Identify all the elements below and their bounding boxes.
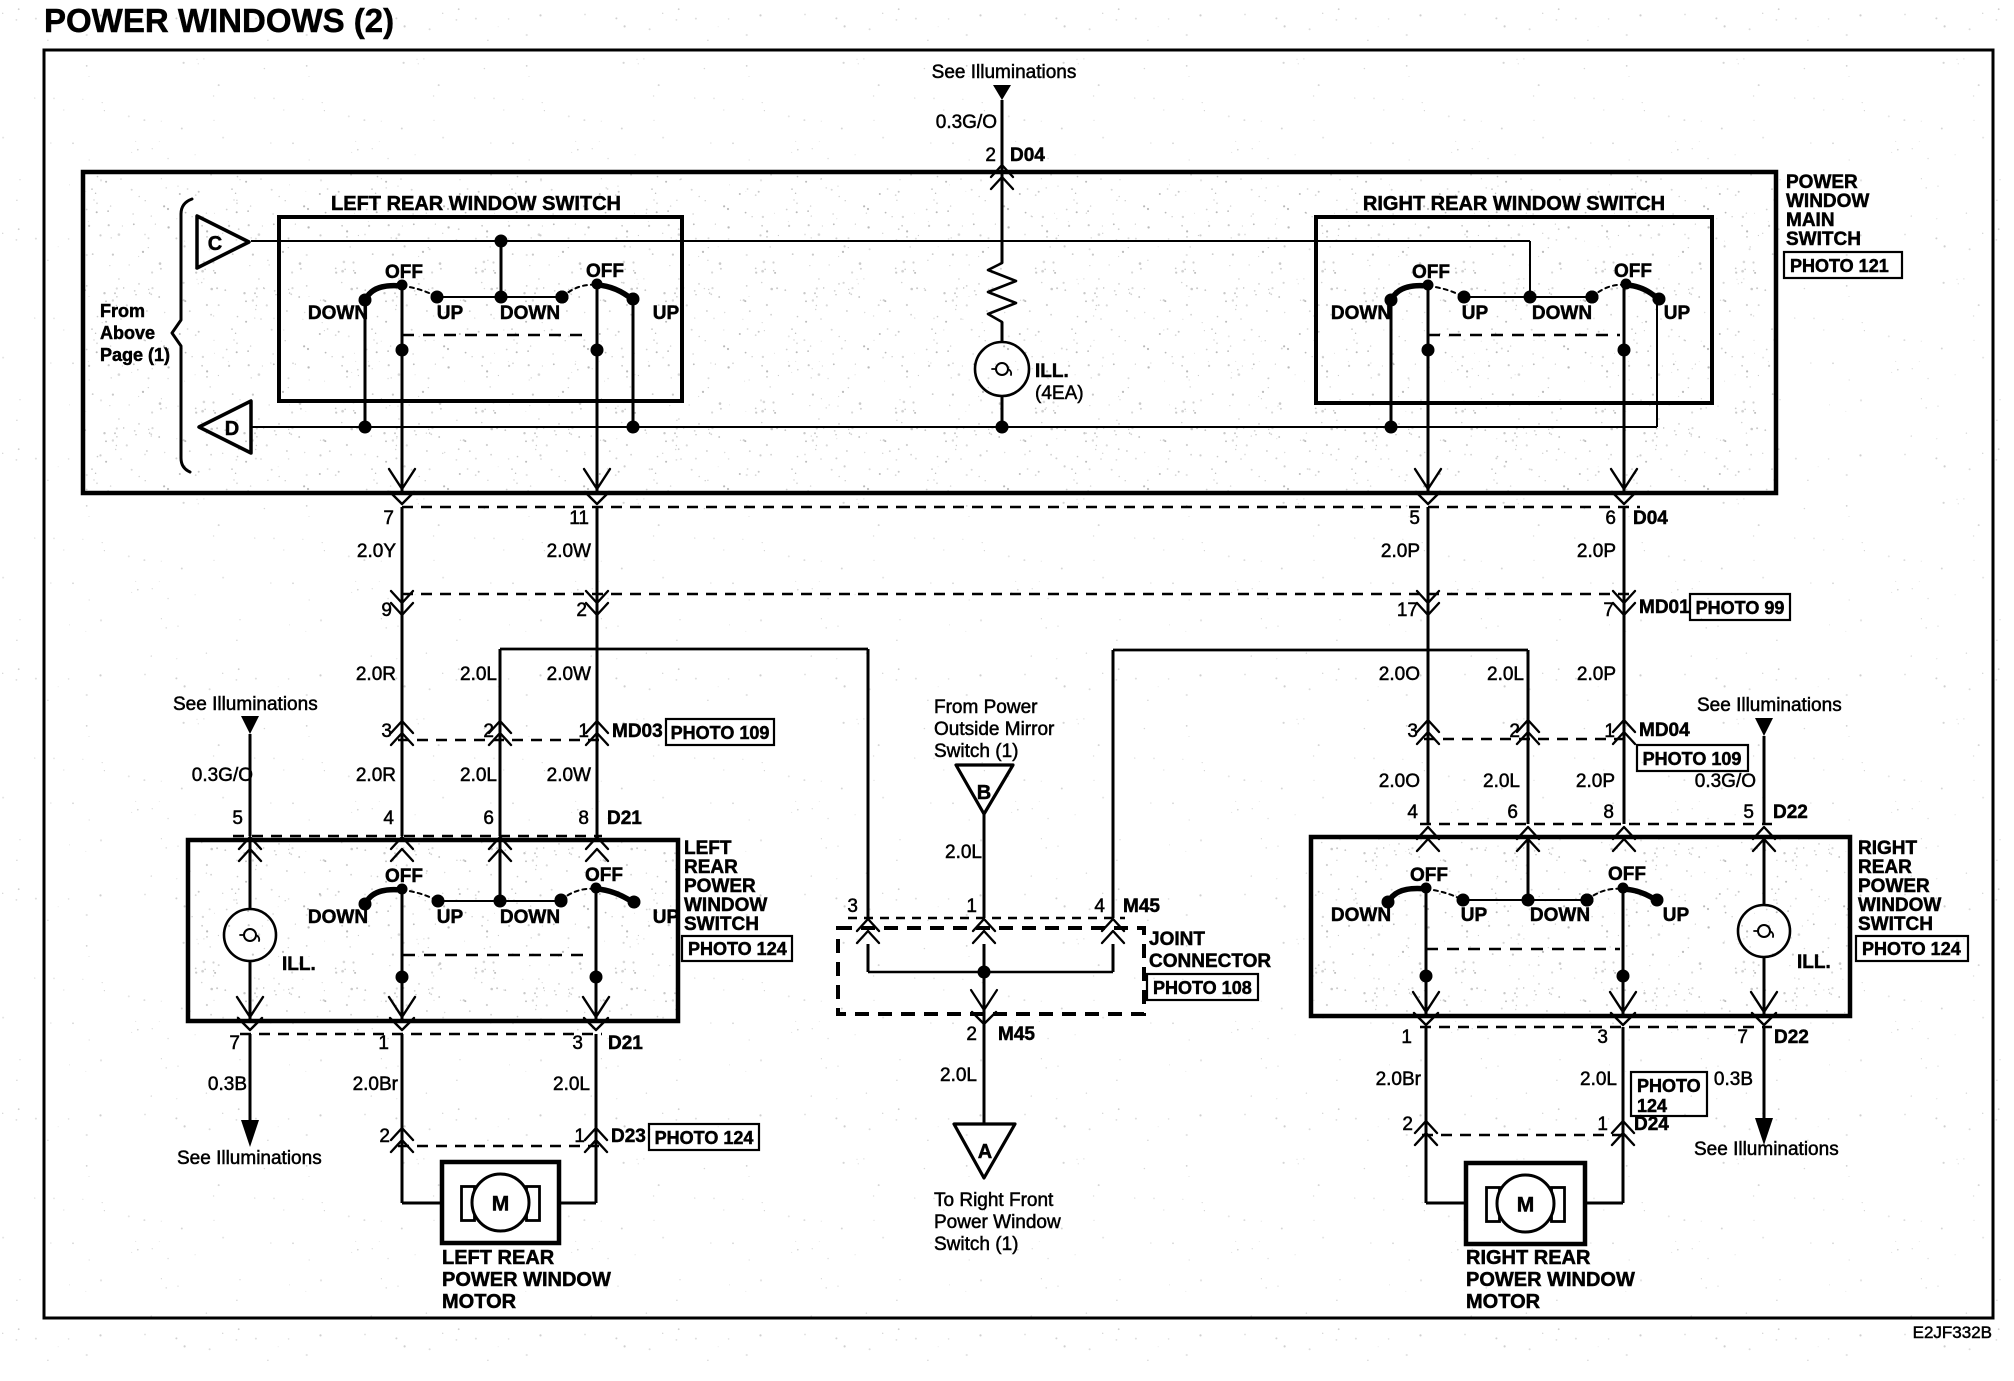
svg-text:SWITCH: SWITCH bbox=[684, 914, 759, 935]
svg-text:3: 3 bbox=[572, 1033, 583, 1054]
svg-text:POWER WINDOWS (2): POWER WINDOWS (2) bbox=[44, 2, 394, 39]
svg-text:2.0L: 2.0L bbox=[1487, 664, 1524, 685]
svg-text:8: 8 bbox=[578, 808, 589, 829]
svg-text:7: 7 bbox=[1603, 600, 1614, 621]
svg-text:OFF: OFF bbox=[1614, 261, 1652, 282]
svg-text:M45: M45 bbox=[1123, 896, 1160, 917]
svg-text:CONNECTOR: CONNECTOR bbox=[1149, 951, 1271, 972]
svg-text:Page (1): Page (1) bbox=[100, 345, 170, 365]
svg-text:A: A bbox=[978, 1141, 992, 1163]
svg-text:3: 3 bbox=[847, 896, 858, 917]
svg-text:3: 3 bbox=[381, 721, 392, 742]
svg-text:SWITCH: SWITCH bbox=[1858, 914, 1933, 935]
svg-text:D04: D04 bbox=[1010, 145, 1045, 166]
svg-text:LEFT REAR: LEFT REAR bbox=[442, 1247, 555, 1269]
svg-text:POWER: POWER bbox=[684, 876, 756, 897]
svg-text:D23: D23 bbox=[611, 1126, 646, 1147]
svg-text:DOWN: DOWN bbox=[1530, 905, 1590, 926]
svg-text:MAIN: MAIN bbox=[1786, 210, 1835, 231]
svg-text:PHOTO: PHOTO bbox=[1637, 1076, 1701, 1096]
svg-text:MD03: MD03 bbox=[612, 721, 663, 742]
svg-text:2.0P: 2.0P bbox=[1576, 771, 1615, 792]
svg-text:MOTOR: MOTOR bbox=[442, 1291, 517, 1313]
svg-text:2.0L: 2.0L bbox=[940, 1065, 977, 1086]
svg-text:2.0W: 2.0W bbox=[547, 664, 591, 685]
svg-text:RIGHT REAR WINDOW SWITCH: RIGHT REAR WINDOW SWITCH bbox=[1363, 193, 1665, 215]
svg-text:ILL.: ILL. bbox=[282, 954, 316, 975]
svg-text:2: 2 bbox=[483, 721, 494, 742]
svg-text:7: 7 bbox=[1737, 1027, 1748, 1048]
svg-text:(4EA): (4EA) bbox=[1035, 383, 1084, 404]
svg-text:Outside Mirror: Outside Mirror bbox=[934, 719, 1055, 740]
svg-text:DOWN: DOWN bbox=[1331, 905, 1391, 926]
svg-text:1: 1 bbox=[574, 1126, 585, 1147]
svg-text:OFF: OFF bbox=[1410, 865, 1448, 886]
svg-text:C: C bbox=[208, 233, 222, 255]
svg-text:8: 8 bbox=[1603, 802, 1614, 823]
svg-text:REAR: REAR bbox=[1858, 857, 1912, 878]
svg-text:MD01: MD01 bbox=[1639, 597, 1690, 618]
svg-text:124: 124 bbox=[1637, 1096, 1667, 1116]
svg-text:D22: D22 bbox=[1773, 802, 1808, 823]
svg-text:5: 5 bbox=[232, 808, 243, 829]
svg-text:2.0O: 2.0O bbox=[1379, 664, 1420, 685]
svg-text:UP: UP bbox=[653, 303, 680, 324]
svg-text:2.0W: 2.0W bbox=[547, 541, 591, 562]
svg-text:4: 4 bbox=[1094, 896, 1105, 917]
svg-text:2.0W: 2.0W bbox=[547, 765, 591, 786]
svg-text:Above: Above bbox=[100, 323, 155, 343]
svg-text:2.0Br: 2.0Br bbox=[1376, 1069, 1422, 1090]
svg-text:JOINT: JOINT bbox=[1149, 929, 1205, 950]
svg-text:UP: UP bbox=[1461, 905, 1488, 926]
svg-text:1: 1 bbox=[966, 896, 977, 917]
svg-text:2.0R: 2.0R bbox=[356, 765, 396, 786]
svg-text:From Power: From Power bbox=[934, 697, 1038, 718]
svg-text:M: M bbox=[492, 1193, 510, 1216]
svg-text:MD04: MD04 bbox=[1639, 720, 1690, 741]
svg-text:RIGHT: RIGHT bbox=[1858, 838, 1918, 859]
svg-text:D21: D21 bbox=[607, 808, 642, 829]
svg-text:UP: UP bbox=[1664, 303, 1691, 324]
svg-text:5: 5 bbox=[1409, 508, 1420, 529]
svg-text:UP: UP bbox=[437, 907, 464, 928]
svg-text:2: 2 bbox=[1402, 1114, 1413, 1135]
svg-text:0.3B: 0.3B bbox=[1714, 1069, 1753, 1090]
svg-text:RIGHT REAR: RIGHT REAR bbox=[1466, 1247, 1591, 1269]
svg-text:DOWN: DOWN bbox=[308, 907, 368, 928]
svg-text:DOWN: DOWN bbox=[308, 303, 368, 324]
svg-text:1: 1 bbox=[378, 1033, 389, 1054]
svg-text:MOTOR: MOTOR bbox=[1466, 1291, 1541, 1313]
svg-text:OFF: OFF bbox=[585, 865, 623, 886]
svg-text:7: 7 bbox=[229, 1033, 240, 1054]
svg-text:D: D bbox=[225, 418, 239, 440]
svg-text:PHOTO 109: PHOTO 109 bbox=[671, 723, 770, 743]
svg-text:D04: D04 bbox=[1633, 508, 1668, 529]
svg-text:6: 6 bbox=[1507, 802, 1518, 823]
svg-text:DOWN: DOWN bbox=[500, 907, 560, 928]
svg-text:17: 17 bbox=[1397, 600, 1418, 621]
svg-text:Power Window: Power Window bbox=[934, 1212, 1061, 1233]
svg-text:2.0L: 2.0L bbox=[1580, 1069, 1617, 1090]
svg-text:5: 5 bbox=[1743, 802, 1754, 823]
svg-text:B: B bbox=[977, 782, 991, 804]
svg-text:2.0L: 2.0L bbox=[460, 664, 497, 685]
svg-text:0.3G/O: 0.3G/O bbox=[1695, 771, 1756, 792]
svg-text:UP: UP bbox=[1462, 303, 1489, 324]
svg-text:M45: M45 bbox=[998, 1024, 1035, 1045]
svg-text:M: M bbox=[1517, 1194, 1535, 1217]
svg-text:WINDOW: WINDOW bbox=[1858, 895, 1941, 916]
svg-text:6: 6 bbox=[1605, 508, 1616, 529]
svg-text:PHOTO 109: PHOTO 109 bbox=[1643, 749, 1742, 769]
svg-text:See Illuminations: See Illuminations bbox=[177, 1148, 322, 1169]
svg-text:UP: UP bbox=[437, 303, 464, 324]
svg-text:From: From bbox=[100, 301, 145, 321]
svg-text:2.0Br: 2.0Br bbox=[353, 1074, 399, 1095]
svg-text:DOWN: DOWN bbox=[1532, 303, 1592, 324]
svg-text:2: 2 bbox=[379, 1126, 390, 1147]
svg-text:7: 7 bbox=[383, 508, 394, 529]
svg-text:Switch (1): Switch (1) bbox=[934, 741, 1018, 762]
svg-text:PHOTO 124: PHOTO 124 bbox=[655, 1128, 754, 1148]
svg-text:4: 4 bbox=[383, 808, 394, 829]
svg-text:1: 1 bbox=[1604, 721, 1615, 742]
svg-text:2.0L: 2.0L bbox=[460, 765, 497, 786]
svg-text:2.0P: 2.0P bbox=[1577, 541, 1616, 562]
svg-text:4: 4 bbox=[1407, 802, 1418, 823]
svg-text:UP: UP bbox=[653, 907, 680, 928]
svg-text:2: 2 bbox=[985, 145, 996, 166]
svg-text:OFF: OFF bbox=[385, 262, 423, 283]
svg-text:PHOTO 99: PHOTO 99 bbox=[1696, 598, 1785, 618]
svg-text:D24: D24 bbox=[1634, 1114, 1669, 1135]
svg-text:2: 2 bbox=[966, 1024, 977, 1045]
svg-text:2.0L: 2.0L bbox=[1483, 771, 1520, 792]
svg-text:PHOTO 121: PHOTO 121 bbox=[1790, 256, 1889, 276]
svg-text:See Illuminations: See Illuminations bbox=[1697, 695, 1842, 716]
svg-text:D22: D22 bbox=[1774, 1027, 1809, 1048]
svg-text:PHOTO 108: PHOTO 108 bbox=[1153, 978, 1252, 998]
svg-text:PHOTO 124: PHOTO 124 bbox=[688, 939, 787, 959]
svg-text:DOWN: DOWN bbox=[500, 303, 560, 324]
svg-text:POWER WINDOW: POWER WINDOW bbox=[442, 1269, 611, 1291]
svg-text:SWITCH: SWITCH bbox=[1786, 229, 1861, 250]
svg-text:2: 2 bbox=[1509, 721, 1520, 742]
svg-text:3: 3 bbox=[1407, 721, 1418, 742]
svg-text:Switch (1): Switch (1) bbox=[934, 1234, 1018, 1255]
svg-text:OFF: OFF bbox=[1412, 262, 1450, 283]
svg-text:2.0R: 2.0R bbox=[356, 664, 396, 685]
svg-text:3: 3 bbox=[1597, 1027, 1608, 1048]
svg-text:2.0P: 2.0P bbox=[1381, 541, 1420, 562]
svg-text:D21: D21 bbox=[608, 1033, 643, 1054]
svg-text:OFF: OFF bbox=[385, 866, 423, 887]
svg-text:2.0P: 2.0P bbox=[1577, 664, 1616, 685]
svg-text:WINDOW: WINDOW bbox=[1786, 191, 1869, 212]
svg-text:PHOTO 124: PHOTO 124 bbox=[1862, 939, 1961, 959]
svg-text:2.0O: 2.0O bbox=[1379, 771, 1420, 792]
svg-text:DOWN: DOWN bbox=[1331, 303, 1391, 324]
svg-text:1: 1 bbox=[1597, 1114, 1608, 1135]
svg-text:OFF: OFF bbox=[586, 261, 624, 282]
svg-text:See Illuminations: See Illuminations bbox=[173, 694, 318, 715]
svg-text:POWER: POWER bbox=[1786, 172, 1858, 193]
svg-text:0.3B: 0.3B bbox=[208, 1074, 247, 1095]
svg-text:1: 1 bbox=[578, 721, 589, 742]
svg-text:2: 2 bbox=[576, 600, 587, 621]
svg-text:ILL.: ILL. bbox=[1797, 952, 1831, 973]
svg-text:UP: UP bbox=[1663, 905, 1690, 926]
svg-text:6: 6 bbox=[483, 808, 494, 829]
svg-text:0.3G/O: 0.3G/O bbox=[936, 112, 997, 133]
svg-text:1: 1 bbox=[1401, 1027, 1412, 1048]
svg-text:REAR: REAR bbox=[684, 857, 738, 878]
svg-text:To Right Front: To Right Front bbox=[934, 1190, 1054, 1211]
svg-text:0.3G/O: 0.3G/O bbox=[192, 765, 253, 786]
svg-text:2.0L: 2.0L bbox=[945, 842, 982, 863]
svg-text:See Illuminations: See Illuminations bbox=[932, 62, 1077, 83]
svg-text:LEFT REAR WINDOW SWITCH: LEFT REAR WINDOW SWITCH bbox=[331, 193, 621, 215]
svg-text:OFF: OFF bbox=[1608, 864, 1646, 885]
svg-text:POWER: POWER bbox=[1858, 876, 1930, 897]
svg-text:E2JF332B: E2JF332B bbox=[1913, 1323, 1992, 1342]
svg-text:2.0Y: 2.0Y bbox=[357, 541, 396, 562]
svg-text:9: 9 bbox=[381, 600, 392, 621]
svg-text:LEFT: LEFT bbox=[684, 838, 732, 859]
svg-text:POWER WINDOW: POWER WINDOW bbox=[1466, 1269, 1635, 1291]
svg-text:ILL.: ILL. bbox=[1035, 361, 1069, 382]
svg-text:WINDOW: WINDOW bbox=[684, 895, 767, 916]
svg-text:2.0L: 2.0L bbox=[553, 1074, 590, 1095]
svg-text:See Illuminations: See Illuminations bbox=[1694, 1139, 1839, 1160]
svg-text:11: 11 bbox=[569, 508, 589, 529]
